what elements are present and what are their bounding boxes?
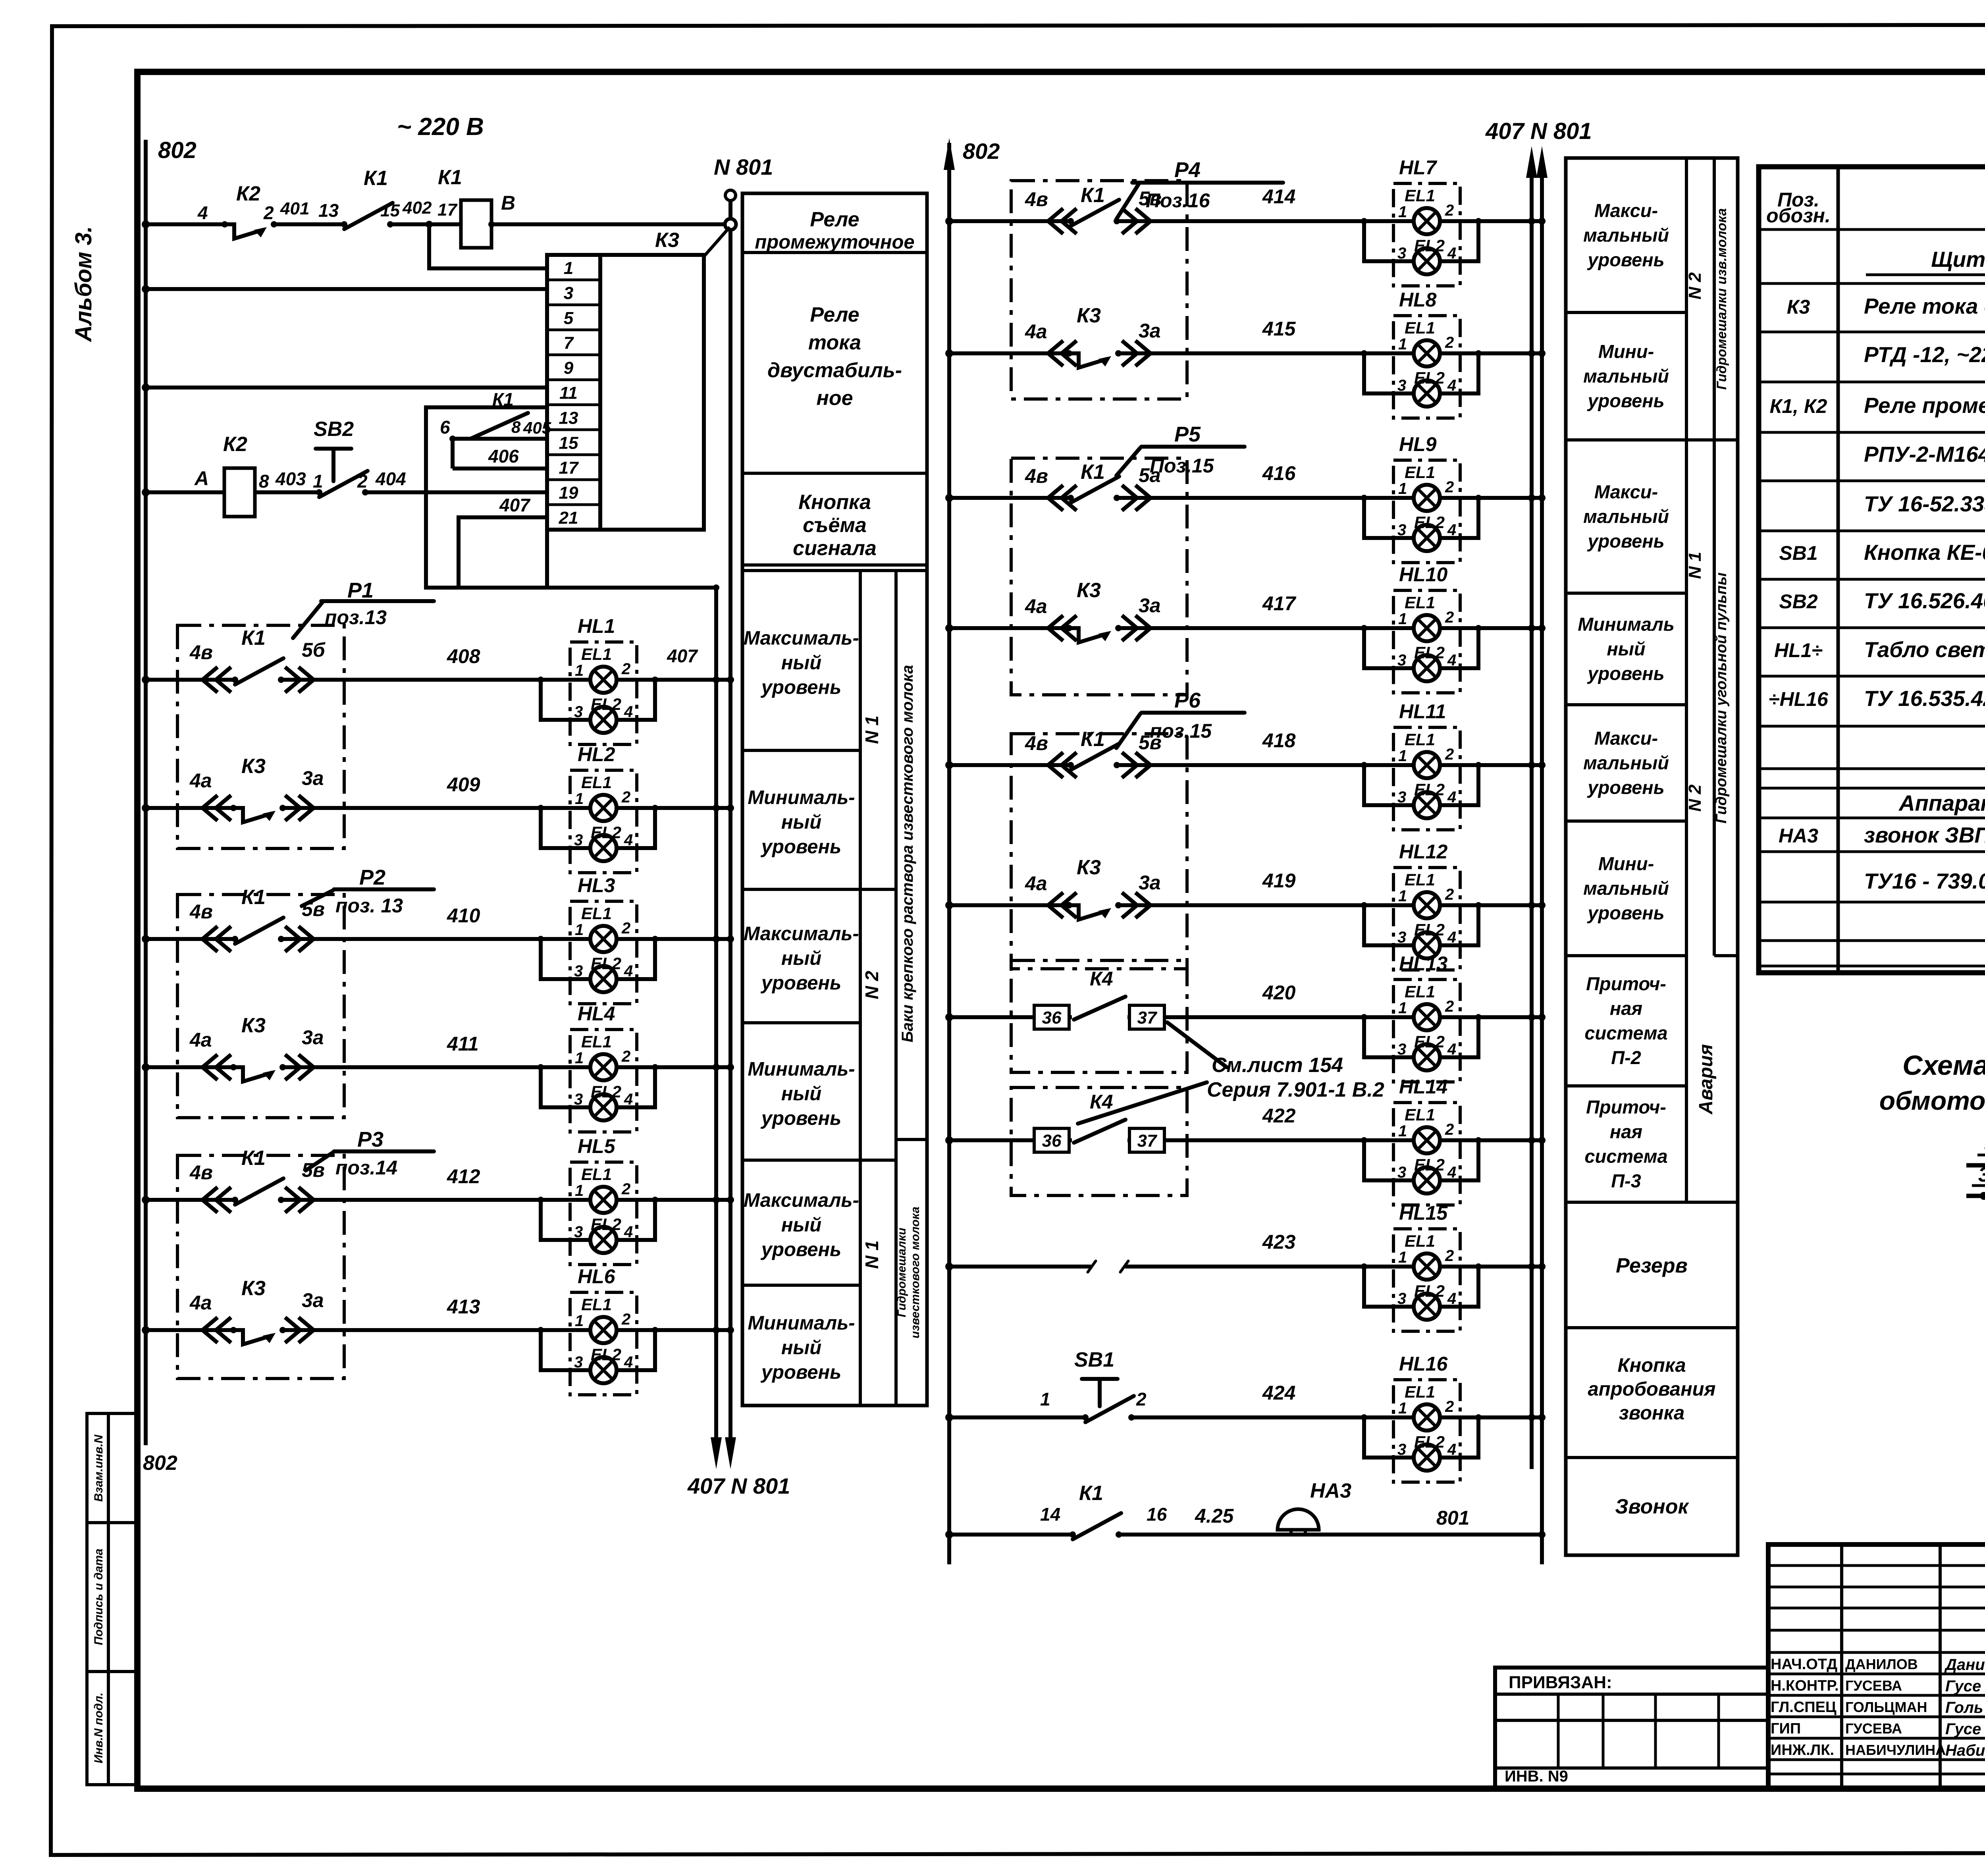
left label column outline (742, 193, 927, 1406)
svg-text:4в: 4в (189, 1161, 213, 1184)
svg-text:416: 416 (1262, 462, 1296, 484)
connector chevrons 414 (1048, 208, 1077, 234)
connector chevrons 419 (1048, 893, 1077, 918)
svg-text:Гидромешалки: Гидромешалки (895, 1228, 908, 1317)
svg-text:К1: К1 (492, 389, 514, 410)
svg-text:4а: 4а (1025, 320, 1047, 343)
svg-text:обмоток реле К1, К2 (РПУ-2-М16: обмоток реле К1, К2 (РПУ-2-М16420 УЗБ) (1879, 1086, 1985, 1115)
svg-text:К1: К1 (241, 1147, 266, 1170)
lamp HL1 (538, 642, 658, 744)
wire 414 (949, 219, 1542, 223)
svg-text:уровень: уровень (760, 972, 841, 994)
svg-text:К1, К2: К1, К2 (1770, 395, 1827, 417)
contact box P3 (dash-dot) (177, 1155, 344, 1379)
svg-text:13: 13 (318, 200, 339, 221)
svg-text:Макси-: Макси- (1594, 200, 1658, 221)
svg-text:N 1: N 1 (861, 715, 882, 744)
lamp HL7 (1361, 183, 1482, 286)
svg-text:37: 37 (1137, 1008, 1158, 1028)
wire break 423 (1091, 1263, 1125, 1270)
wire 422 (949, 1138, 1542, 1142)
svg-text:8: 8 (259, 471, 269, 492)
svg-text:Мини-: Мини- (1598, 853, 1654, 874)
aux box K1 contact (426, 407, 547, 588)
svg-text:4: 4 (197, 202, 208, 223)
connector chevrons 415 (1048, 341, 1077, 366)
svg-text:37: 37 (1137, 1131, 1158, 1151)
svg-text:ИНЖ.ЛК.: ИНЖ.ЛК. (1771, 1742, 1834, 1758)
svg-text:ГУСЕВА: ГУСЕВА (1845, 1677, 1902, 1694)
svg-text:Резерв: Резерв (1616, 1254, 1688, 1277)
svg-text:4а: 4а (189, 1029, 212, 1051)
svg-text:См.лист 154: См.лист 154 (1212, 1054, 1343, 1077)
svg-text:НАБИЧУЛИНА: НАБИЧУЛИНА (1845, 1742, 1946, 1758)
svg-text:419: 419 (1262, 870, 1296, 892)
bus 802 middle (947, 143, 951, 1564)
svg-text:съёма: съёма (803, 514, 867, 537)
svg-text:402: 402 (402, 198, 432, 218)
svg-text:К1: К1 (1081, 728, 1105, 751)
svg-text:13: 13 (559, 408, 578, 428)
lamp HL15 (1361, 1229, 1482, 1331)
svg-text:407 N 801: 407 N 801 (1485, 118, 1592, 144)
svg-text:Баки крепкого раствора известк: Баки крепкого раствора известкового моло… (899, 665, 916, 1043)
contact K3 (w413) (230, 1327, 286, 1344)
svg-text:уровень: уровень (1587, 663, 1664, 684)
svg-text:N 1: N 1 (1685, 552, 1705, 579)
svg-text:А: А (194, 467, 209, 490)
svg-text:Минималь-: Минималь- (748, 1313, 855, 1334)
contact K4 (422) (1072, 1137, 1127, 1143)
svg-text:412: 412 (447, 1165, 480, 1188)
wire bell row (949, 1533, 1542, 1537)
svg-text:Минималь-: Минималь- (748, 1059, 855, 1080)
left label col top separators (742, 251, 927, 254)
svg-text:16: 16 (1147, 1504, 1167, 1525)
svg-text:мальный: мальный (1583, 878, 1669, 899)
svg-text:уровень: уровень (760, 677, 841, 698)
svg-text:К3: К3 (1077, 579, 1101, 602)
svg-text:двустабиль-: двустабиль- (767, 359, 902, 382)
flag P5 (1116, 447, 1245, 476)
svg-text:Максималь-: Максималь- (744, 1190, 859, 1211)
svg-text:4а: 4а (189, 1292, 212, 1314)
svg-text:409: 409 (447, 773, 480, 796)
svg-text:Табло световое тсб-Ш-УЗ-01: Табло световое тсб-Ш-УЗ-01 (1864, 637, 1985, 662)
svg-text:Реле промежуточное.: Реле промежуточное. (1864, 393, 1985, 418)
wire rowB 802-SB2 (146, 490, 426, 494)
svg-text:SВ2: SВ2 (1779, 590, 1817, 613)
contact K1 (bell row) (1070, 1513, 1122, 1539)
svg-text:N 2: N 2 (1685, 784, 1705, 812)
relay coil K2 (224, 468, 255, 517)
svg-text:ная: ная (1610, 998, 1642, 1019)
svg-text:3а: 3а (1139, 594, 1161, 617)
wire w412 (146, 1198, 730, 1202)
connector chevrons w408 (202, 667, 231, 692)
svg-text:SВ2: SВ2 (314, 418, 354, 441)
svg-text:уровень: уровень (760, 1108, 841, 1129)
wire w408 (146, 678, 730, 682)
svg-text:14: 14 (1040, 1504, 1060, 1525)
svg-text:417: 417 (1262, 592, 1297, 615)
wire rowB box-pin19 (426, 490, 547, 494)
svg-text:1: 1 (313, 471, 323, 492)
wire 420 (949, 1015, 1542, 1019)
svg-text:К3: К3 (1077, 304, 1101, 327)
terminal 36 (420) (1034, 1005, 1069, 1029)
svg-text:Голь: Голь (1945, 1699, 1983, 1716)
svg-text:К1: К1 (241, 886, 266, 909)
contact box P5 (dash-dot) (1011, 458, 1187, 695)
svg-text:уровень: уровень (1587, 777, 1664, 798)
svg-text:403: 403 (275, 469, 306, 489)
svg-text:4в: 4в (1025, 732, 1048, 754)
svg-text:Серия 7.901-1 В.2: Серия 7.901-1 В.2 (1207, 1078, 1384, 1101)
terminal block K3 cells and pin numbers (547, 278, 600, 281)
wire 407 middle vertical (1530, 175, 1534, 1469)
svg-text:РПУ-2-М164 20 УЗБ ~220В: РПУ-2-М164 20 УЗБ ~220В (1864, 442, 1985, 467)
svg-text:Альбом 3.: Альбом 3. (71, 226, 96, 342)
contact K2 (row1) (222, 221, 277, 239)
svg-text:17: 17 (559, 458, 579, 478)
svg-text:НL5: НL5 (578, 1135, 616, 1157)
svg-text:НL11: НL11 (1399, 700, 1446, 723)
flag P4 (1116, 183, 1283, 219)
stamp column boxes (87, 1413, 108, 1785)
svg-text:ТУ 16-52.3331-78.: ТУ 16-52.3331-78. (1864, 492, 1985, 516)
svg-text:4а: 4а (189, 769, 212, 792)
bus 802 left (144, 140, 148, 1445)
svg-text:тока: тока (808, 331, 861, 354)
svg-text:НL12: НL12 (1399, 841, 1447, 863)
svg-text:5: 5 (564, 308, 574, 328)
svg-text:ТУ16 - 739.059-76.: ТУ16 - 739.059-76. (1864, 869, 1985, 893)
leader lines sm.list (1078, 1022, 1227, 1124)
svg-text:система: система (1584, 1146, 1667, 1167)
svg-text:4в: 4в (189, 900, 213, 923)
svg-text:ный: ный (781, 652, 821, 674)
svg-text:3: 3 (1978, 1163, 1985, 1186)
svg-text:801: 801 (1436, 1507, 1469, 1529)
svg-text:Макси-: Макси- (1594, 481, 1658, 502)
contact K1 (w412) (232, 1178, 284, 1205)
svg-text:Гусе: Гусе (1945, 1720, 1981, 1738)
svg-text:Гидромешалки изв.молока: Гидромешалки изв.молока (1714, 208, 1729, 389)
wire branch pin9 (146, 386, 547, 389)
svg-text:405: 405 (523, 418, 551, 437)
wire 419 (949, 903, 1542, 907)
wire w410 (146, 937, 730, 941)
contact K1 (414) (1068, 200, 1120, 226)
svg-text:К1: К1 (1081, 461, 1105, 484)
arrow 407 middle top (1526, 146, 1537, 178)
svg-text:Поз.16: Поз.16 (1146, 189, 1210, 212)
wire 417 (949, 626, 1542, 630)
contact K1 (row1) (341, 203, 393, 229)
svg-text:сигнала: сигнала (793, 537, 877, 560)
svg-text:НL1: НL1 (578, 615, 615, 637)
svg-text:4а: 4а (1025, 872, 1047, 895)
svg-text:ный: ный (1607, 638, 1645, 659)
mini contact 3-1 (1966, 1194, 1985, 1198)
flag P2 (302, 889, 434, 906)
svg-text:звонка: звонка (1619, 1402, 1685, 1424)
wire 415 (949, 351, 1542, 355)
wire w409 (146, 806, 730, 810)
svg-text:НА3: НА3 (1310, 1479, 1351, 1502)
wire 424 (949, 1415, 1542, 1419)
svg-text:SВ1: SВ1 (1779, 542, 1817, 564)
wire diag box corner to N801 (704, 227, 730, 256)
svg-text:уровень: уровень (1587, 530, 1664, 551)
svg-text:П-3: П-3 (1611, 1170, 1641, 1192)
right label column outline (1566, 158, 1738, 1555)
contact K3 (419) (1066, 902, 1122, 920)
svg-text:2: 2 (357, 471, 368, 492)
svg-text:404: 404 (375, 469, 406, 489)
connector chevrons w410 (202, 926, 231, 952)
svg-text:Кнопка: Кнопка (1617, 1355, 1686, 1376)
svg-text:36: 36 (1042, 1131, 1062, 1151)
svg-text:НА3: НА3 (1779, 825, 1818, 847)
svg-text:2: 2 (263, 202, 274, 223)
svg-text:уровень: уровень (1587, 902, 1664, 924)
svg-text:звонок ЗВП-220: звонок ЗВП-220 (1864, 823, 1985, 847)
svg-text:НL1÷: НL1÷ (1774, 639, 1823, 661)
svg-text:4в: 4в (1025, 188, 1048, 210)
connector chevrons w411 (202, 1055, 231, 1080)
svg-text:НL16: НL16 (1399, 1353, 1448, 1375)
svg-text:Реле тока двустабильное.: Реле тока двустабильное. (1864, 294, 1985, 318)
lamp HL10 (1361, 590, 1482, 693)
arrow 407 left bottom (711, 1437, 722, 1469)
wire 407 left vertical (714, 588, 718, 1442)
svg-text:Схема выводов контактов и: Схема выводов контактов и (1902, 1050, 1985, 1081)
svg-text:3а: 3а (302, 1289, 324, 1311)
svg-text:Р6: Р6 (1174, 688, 1201, 712)
svg-text:3: 3 (564, 283, 573, 303)
terminal 37 (422) (1129, 1128, 1164, 1152)
lamp HL5 (538, 1162, 658, 1265)
svg-text:4в: 4в (189, 641, 213, 663)
svg-text:НL7: НL7 (1399, 156, 1438, 179)
connector chevrons w413 (202, 1317, 231, 1343)
svg-text:НL14: НL14 (1399, 1076, 1447, 1098)
pushbutton SB1 (1082, 1379, 1118, 1406)
svg-text:НL4: НL4 (578, 1003, 615, 1025)
svg-text:К4: К4 (1090, 1091, 1113, 1113)
svg-text:11: 11 (559, 384, 578, 403)
svg-text:Мини-: Мини- (1598, 341, 1654, 362)
svg-text:415: 415 (1262, 318, 1296, 340)
svg-text:408: 408 (447, 645, 480, 667)
svg-text:К2: К2 (223, 433, 247, 456)
connector chevrons 418 (1048, 752, 1077, 778)
svg-text:ГОЛЬЦМАН: ГОЛЬЦМАН (1845, 1699, 1927, 1715)
svg-text:К3: К3 (241, 755, 266, 778)
svg-text:Максималь-: Максималь- (744, 923, 859, 945)
svg-text:К1: К1 (1079, 1482, 1103, 1505)
left label lower grid (859, 571, 862, 1406)
svg-text:К3: К3 (1787, 296, 1810, 318)
svg-text:уровень: уровень (760, 836, 841, 858)
svg-text:N 2: N 2 (861, 971, 882, 999)
svg-text:407: 407 (499, 495, 531, 515)
svg-text:N 801: N 801 (714, 154, 773, 179)
svg-text:уровень: уровень (1587, 249, 1664, 270)
lamp HL4 (538, 1030, 658, 1132)
connector chevrons 416 (1048, 485, 1077, 511)
wire 405 pin15 (453, 437, 547, 441)
svg-text:Звонок: Звонок (1615, 1495, 1689, 1518)
svg-text:4в: 4в (1025, 465, 1048, 487)
svg-text:уровень: уровень (760, 1239, 841, 1261)
svg-text:П-2: П-2 (1611, 1047, 1641, 1068)
svg-text:апробования: апробования (1588, 1379, 1716, 1400)
svg-text:ГЛ.СПЕЦ: ГЛ.СПЕЦ (1771, 1699, 1837, 1716)
pushbutton SB2 (316, 449, 351, 481)
lamp HL6 (538, 1292, 658, 1395)
contact K1 (418) (1068, 744, 1120, 770)
svg-text:Р3: Р3 (357, 1128, 384, 1151)
svg-text:Макси-: Макси- (1594, 728, 1658, 749)
svg-text:поз.13: поз.13 (325, 606, 387, 629)
svg-text:422: 422 (1262, 1105, 1296, 1127)
svg-text:Инв.N подл.: Инв.N подл. (92, 1693, 105, 1763)
wire 416 (949, 496, 1542, 500)
wire 418 (949, 763, 1542, 767)
svg-text:К3: К3 (241, 1277, 266, 1300)
svg-text:ТУ 16.526.407-79: ТУ 16.526.407-79 (1864, 588, 1985, 613)
mini contact 5-7 (1966, 1163, 1985, 1168)
svg-text:Взам.инв.N: Взам.инв.N (92, 1434, 105, 1502)
svg-text:SВ1: SВ1 (1074, 1348, 1114, 1371)
svg-text:Р5: Р5 (1174, 422, 1201, 446)
svg-text:НL15: НL15 (1399, 1202, 1448, 1224)
svg-text:К3: К3 (1077, 856, 1101, 879)
connector chevrons w412 (202, 1187, 231, 1213)
lamp HL16 (1361, 1380, 1482, 1482)
svg-text:1: 1 (564, 258, 573, 278)
contact K1 (416) (1068, 476, 1120, 503)
svg-text:407: 407 (667, 646, 698, 666)
svg-text:К1: К1 (241, 627, 266, 650)
svg-text:ГИП: ГИП (1771, 1720, 1801, 1737)
svg-text:НL9: НL9 (1399, 433, 1437, 455)
svg-text:423: 423 (1262, 1231, 1296, 1253)
svg-text:К4: К4 (1090, 968, 1113, 990)
svg-text:НL2: НL2 (578, 743, 615, 765)
wire row1 drop to pin1 (429, 224, 547, 268)
wire row1 coil-N801 (491, 222, 730, 226)
svg-text:N 2: N 2 (1685, 272, 1705, 299)
svg-text:7: 7 (564, 334, 574, 353)
right label grid (1566, 311, 1686, 314)
lamp HL14 (1361, 1103, 1482, 1205)
wire row1 802-K1coil (146, 222, 461, 226)
svg-text:802: 802 (158, 137, 197, 163)
svg-text:Подпись и дата: Подпись и дата (92, 1548, 105, 1645)
svg-text:ГУСЕВА: ГУСЕВА (1845, 1720, 1902, 1737)
wire 406 pin17 (451, 439, 455, 469)
svg-text:Авария: Авария (1696, 1044, 1717, 1115)
lamp HL8 (1361, 316, 1482, 418)
svg-text:401: 401 (280, 199, 309, 218)
arrow N801 middle top (1536, 146, 1548, 178)
contact box K4b (dash-dot) (1011, 1087, 1187, 1195)
svg-text:413: 413 (447, 1296, 480, 1318)
svg-text:К2: К2 (236, 182, 260, 205)
svg-text:ный: ный (781, 1337, 821, 1359)
svg-text:Поз.15: Поз.15 (1150, 455, 1214, 477)
table outline (1759, 167, 1985, 973)
contact K4 (420) (1072, 1014, 1127, 1020)
svg-text:обозн.: обозн. (1766, 204, 1831, 227)
svg-text:система: система (1584, 1022, 1667, 1043)
contact K1 (w408) (232, 658, 284, 684)
svg-text:Кнопка КЕ-011 УЗ исп.2: Кнопка КЕ-011 УЗ исп.2 (1864, 540, 1985, 565)
svg-text:3а: 3а (302, 767, 324, 789)
contact box P4 (dash-dot) (1011, 181, 1187, 399)
lamp HL12 (1361, 868, 1482, 970)
svg-text:9: 9 (564, 359, 574, 378)
lamp HL2 (538, 770, 658, 873)
contact K1 6-8 (470, 413, 528, 439)
svg-text:НАЧ.ОТД: НАЧ.ОТД (1771, 1656, 1837, 1673)
svg-text:НL8: НL8 (1399, 289, 1437, 311)
svg-text:Гусе: Гусе (1945, 1677, 1981, 1695)
svg-text:Щит оператора. Секция 6.: Щит оператора. Секция 6. (1931, 247, 1985, 272)
contact box P6 (dash-dot) (1011, 734, 1187, 969)
wire N801 left vertical (728, 195, 732, 1442)
svg-text:3а: 3а (1139, 320, 1161, 342)
flag P6 (1116, 713, 1245, 748)
svg-text:802: 802 (143, 1452, 177, 1475)
svg-text:мальный: мальный (1583, 366, 1669, 387)
svg-text:3а: 3а (302, 1026, 324, 1049)
svg-text:К1: К1 (1081, 184, 1105, 207)
svg-text:Реле: Реле (810, 303, 859, 326)
svg-text:мальный: мальный (1583, 225, 1669, 246)
svg-text:НL13: НL13 (1399, 952, 1447, 975)
svg-text:407 N 801: 407 N 801 (687, 1473, 790, 1498)
svg-text:17: 17 (437, 200, 458, 220)
svg-text:Наби: Наби (1945, 1742, 1985, 1759)
contact K1 (w410) (232, 918, 284, 944)
terminal 36 (422) (1034, 1128, 1069, 1152)
wire w413 (146, 1328, 730, 1332)
svg-text:Р1: Р1 (347, 578, 374, 602)
privyazan block (1495, 1668, 1768, 1789)
svg-text:уровень: уровень (1587, 390, 1664, 411)
terminal block K3 outline (547, 255, 600, 530)
svg-text:Н.КОНТР.: Н.КОНТР. (1771, 1677, 1839, 1694)
svg-text:К1: К1 (364, 167, 388, 190)
svg-text:ная: ная (1610, 1121, 1642, 1142)
svg-text:~ 220 В: ~ 220 В (397, 113, 484, 141)
svg-text:411: 411 (447, 1033, 479, 1055)
svg-text:К3: К3 (655, 229, 679, 252)
connector chevrons w409 (202, 795, 231, 821)
contact K3 (415) (1066, 350, 1122, 368)
svg-text:Р4: Р4 (1174, 158, 1201, 182)
svg-text:Минималь: Минималь (1578, 614, 1675, 635)
contact box P2 (dash-dot) (177, 895, 344, 1118)
svg-text:промежуточное: промежуточное (755, 231, 914, 253)
contact K3 (w409) (230, 804, 286, 822)
svg-text:Приточ-: Приточ- (1586, 973, 1666, 994)
